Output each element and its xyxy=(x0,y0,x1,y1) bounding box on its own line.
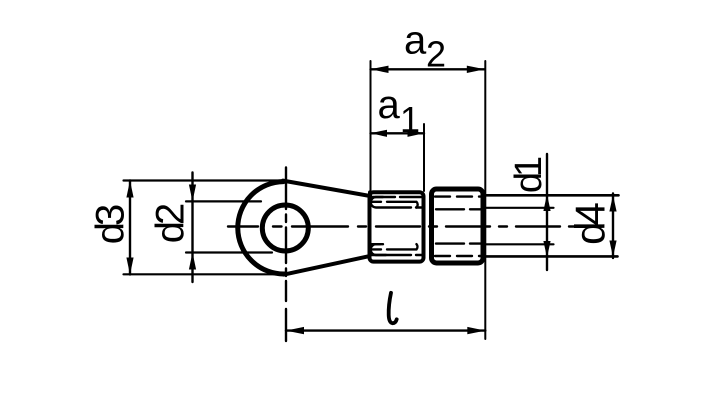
svg-text:2: 2 xyxy=(426,34,446,75)
svg-text:1: 1 xyxy=(400,99,420,140)
barrel 2 (insulation crimp) xyxy=(432,189,484,263)
barrel 1 serration row E with right hook xyxy=(372,244,417,249)
dim a2 arrow left xyxy=(371,66,389,73)
label a2 xyxy=(404,19,446,75)
dim a1 extension right xyxy=(423,124,425,191)
horizontal centerline xyxy=(228,225,598,227)
label l xyxy=(389,293,397,323)
svg-text:d1: d1 xyxy=(508,157,550,193)
svg-text:a: a xyxy=(378,83,401,127)
barrel 1 serration row B with right hook xyxy=(372,202,418,208)
label a1 xyxy=(378,83,421,140)
dim a2 line xyxy=(371,68,485,70)
vertical centerline of ring xyxy=(285,168,287,342)
barrel 2 hidden lines outer xyxy=(435,197,481,256)
barrel 1 serration row D with left hook xyxy=(371,244,424,255)
svg-text:a: a xyxy=(404,19,427,63)
wire outline bottom xyxy=(484,255,618,258)
dim d2 arrow bottom (outside pointing up) xyxy=(189,253,196,270)
dim d3 arrow top xyxy=(126,181,133,198)
dim d3 extension top xyxy=(124,179,285,181)
dim d1 arrow top xyxy=(543,194,550,211)
dim d3 line xyxy=(129,181,131,275)
dim a1 arrow right xyxy=(408,130,425,137)
wire conductor top line xyxy=(484,207,554,209)
dim d3 extension bottom xyxy=(124,273,283,275)
dim d3 arrow bottom xyxy=(126,258,133,275)
wire conductor bottom line xyxy=(484,243,554,245)
barrel 1 serration row C with left hook xyxy=(371,197,424,208)
top tangent wire xyxy=(283,181,370,196)
dim d4 arrow bottom xyxy=(609,241,616,258)
bottom tangent wire xyxy=(284,256,369,274)
dim a1 line xyxy=(371,132,425,134)
dim d2 extension top xyxy=(186,200,261,202)
dim l arrow left xyxy=(286,327,304,334)
dim d2 line xyxy=(191,173,193,283)
barrel 1 serration row A xyxy=(371,196,424,198)
dim a2 extension left xyxy=(370,61,372,191)
dim d1 arrow bottom xyxy=(543,241,550,258)
ring outer arc xyxy=(238,182,285,274)
barrel 1 (conductor crimp) xyxy=(370,192,424,261)
barrel 2 hidden lines inner xyxy=(436,209,482,243)
svg-text:d3: d3 xyxy=(89,205,133,244)
wire outline top xyxy=(484,194,619,197)
ring hole circle d2 xyxy=(262,205,308,251)
barrel 1 serration row F xyxy=(371,244,386,255)
dim l line xyxy=(286,329,485,331)
dim d2 arrow top (outside pointing down) xyxy=(189,185,196,202)
dim d1 line xyxy=(546,154,548,270)
dim a1 arrow left xyxy=(371,130,388,137)
dim l arrow right xyxy=(467,327,485,334)
dim d2 extension bottom xyxy=(186,251,272,253)
dim a2 arrow right xyxy=(467,66,485,73)
dim d4 line xyxy=(612,194,614,259)
dim d4 arrow top xyxy=(609,195,616,212)
svg-text:d4: d4 xyxy=(567,203,614,245)
dim a2 extension right (also l extension) xyxy=(484,61,486,339)
svg-text:d2: d2 xyxy=(149,204,193,243)
